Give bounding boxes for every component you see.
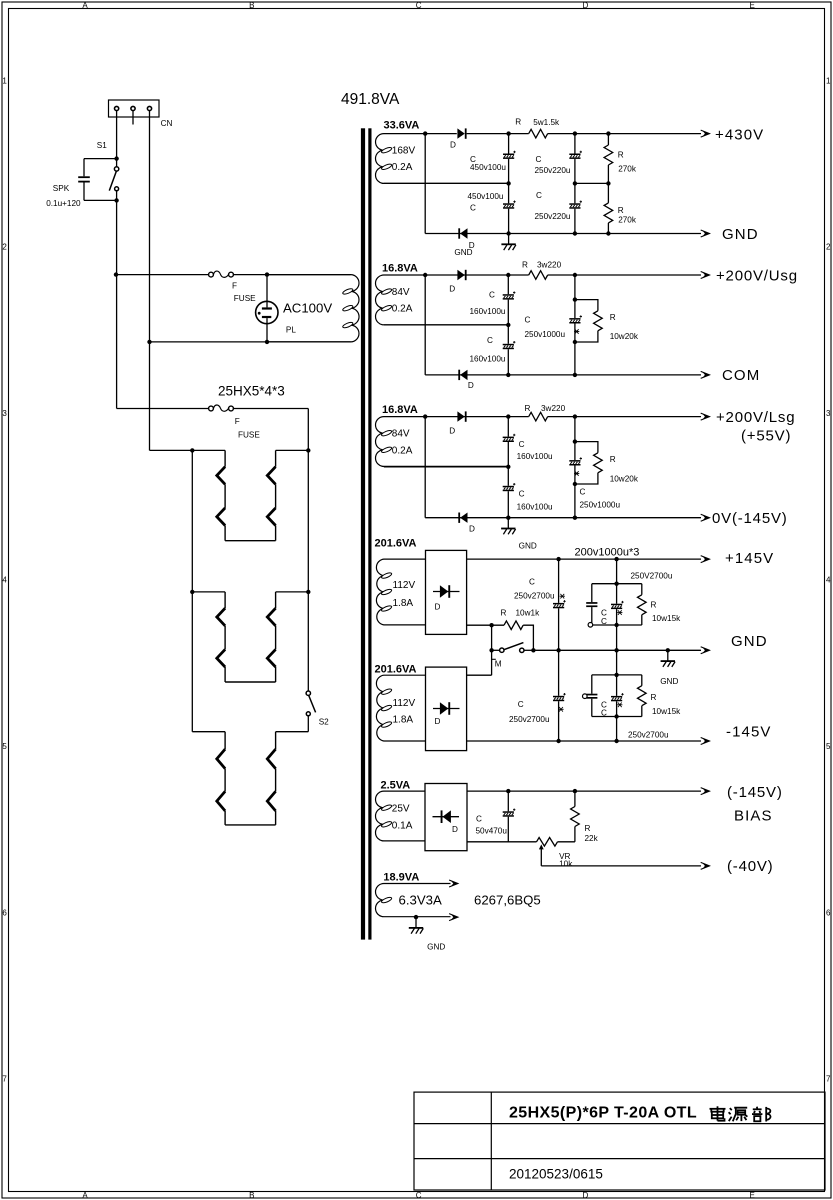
svg-text:7: 7 bbox=[2, 1075, 7, 1084]
secondary winding 201.6VA 112V 1.8A (1) bbox=[376, 559, 425, 625]
svg-text:270k: 270k bbox=[618, 165, 637, 174]
svg-text:C: C bbox=[519, 440, 525, 449]
junction bbox=[573, 273, 577, 277]
wire filter column sec2 bbox=[574, 275, 576, 375]
capacitor C 160v100u (lower sec3) bbox=[503, 483, 516, 491]
capacitor C 160v100u (upper sec3) bbox=[503, 434, 516, 442]
svg-text:25HX5(P)*6P T-20A OTL: 25HX5(P)*6P T-20A OTL bbox=[509, 1105, 697, 1122]
resistor R 3w220 (sec2) bbox=[529, 271, 548, 280]
wire AC top to primary bbox=[267, 274, 351, 276]
resistor R 270k (upper) bbox=[604, 145, 613, 165]
wire GND row sec4 bbox=[533, 649, 701, 651]
junction bbox=[573, 414, 577, 418]
junction row1 left rail bbox=[190, 448, 194, 452]
svg-text:CN: CN bbox=[161, 119, 173, 128]
junction switch M left bbox=[489, 648, 493, 652]
svg-text:R: R bbox=[610, 313, 616, 322]
svg-text:112V: 112V bbox=[393, 580, 416, 591]
wire CN pin3 to heater row bbox=[149, 342, 151, 451]
svg-text:A: A bbox=[82, 1191, 88, 1200]
wire heater g2A lead3 bbox=[224, 667, 226, 682]
wire column A bbox=[558, 559, 560, 741]
svg-text:A: A bbox=[82, 1, 88, 10]
svg-text:270k: 270k bbox=[618, 216, 637, 225]
svg-text:1.8A: 1.8A bbox=[393, 598, 414, 609]
wire SPK top bbox=[84, 158, 117, 160]
svg-text:C: C bbox=[489, 291, 495, 300]
wire cap column sec1 bbox=[508, 134, 510, 234]
capacitor C (group1 electrolytic) bbox=[611, 601, 624, 609]
wire filter column sec3 bbox=[574, 417, 576, 518]
svg-text:D: D bbox=[449, 427, 455, 436]
svg-text:R: R bbox=[651, 601, 657, 610]
heater resistor group3 B1 bbox=[267, 749, 275, 769]
potentiometer VR 10k track bbox=[537, 838, 558, 847]
svg-text:250v2700u: 250v2700u bbox=[509, 715, 550, 724]
svg-text:SPK: SPK bbox=[53, 184, 70, 193]
svg-text:10w15k: 10w15k bbox=[652, 614, 681, 623]
svg-text:R: R bbox=[525, 404, 531, 413]
capacitor C 160v100u (lower sec2) bbox=[503, 341, 516, 349]
arrow -145V bbox=[701, 738, 710, 745]
junction AC bottom left bbox=[147, 340, 151, 344]
svg-text:C: C bbox=[470, 204, 476, 213]
wire COM row bbox=[425, 374, 701, 376]
junction col425 top sec3 bbox=[423, 414, 427, 418]
capacitor C 250v2700u (A upper) bbox=[553, 600, 566, 608]
wire heater g1B lead1 bbox=[275, 450, 277, 466]
svg-text:160v100u: 160v100u bbox=[517, 503, 553, 512]
terminal circle group1 bbox=[588, 623, 593, 628]
svg-text:D: D bbox=[452, 825, 458, 834]
junction bbox=[573, 373, 577, 377]
svg-text:25HX5*4*3: 25HX5*4*3 bbox=[218, 384, 285, 399]
wire (-145V) bias row bbox=[467, 790, 701, 792]
resistor R 10w20k (sec3) bbox=[594, 453, 603, 473]
diode D top (sec2) bbox=[457, 270, 466, 280]
svg-text:201.6VA: 201.6VA bbox=[375, 664, 417, 676]
junction bbox=[506, 516, 510, 520]
svg-text:250V2700u: 250V2700u bbox=[631, 571, 673, 580]
svg-text:E: E bbox=[750, 1, 755, 10]
wire S1 top lead bbox=[116, 159, 118, 167]
svg-text:7: 7 bbox=[826, 1075, 831, 1084]
junction bbox=[556, 739, 560, 743]
svg-text:6.3V3A: 6.3V3A bbox=[399, 893, 442, 908]
svg-text:C: C bbox=[416, 1, 422, 10]
secondary winding 16.8VA 84V 0.2A bbox=[376, 275, 509, 325]
svg-text:160v100u: 160v100u bbox=[517, 452, 553, 461]
svg-text:450v100u: 450v100u bbox=[470, 163, 506, 172]
wire row2 left seg bbox=[192, 591, 225, 593]
bridge rectifier D (1) bbox=[426, 550, 467, 634]
arrow (-40V) bbox=[701, 862, 710, 869]
junction group1 bottom bbox=[614, 623, 618, 627]
wire +200V/Lsg row (right) bbox=[548, 416, 701, 418]
secondary winding 16.8VA 84V 0.2A (2) bbox=[376, 417, 509, 467]
arrow +145V bbox=[701, 556, 710, 563]
wire AC line top (right) bbox=[233, 274, 267, 276]
capacitor C (group2 electrolytic) bbox=[611, 693, 624, 701]
heater resistor group1 B2 bbox=[267, 508, 275, 526]
ground (heater) bbox=[409, 917, 424, 934]
arrow (-145V) bbox=[701, 788, 710, 795]
arrow heater bottom bbox=[449, 914, 458, 921]
svg-text:5w1.5k: 5w1.5k bbox=[533, 118, 560, 127]
wire -145V row bbox=[467, 740, 701, 742]
wire cap column sec3 bbox=[507, 417, 509, 518]
wire +145V row bbox=[467, 558, 701, 560]
heater resistor group3 B2 bbox=[267, 791, 275, 811]
svg-text:2: 2 bbox=[826, 243, 831, 252]
heater resistor group1 A2 bbox=[217, 508, 225, 526]
wire left rail bbox=[191, 450, 193, 731]
junction mid sec3 bbox=[506, 465, 510, 469]
svg-text:FUSE: FUSE bbox=[238, 431, 260, 440]
wire row2 right seg bbox=[276, 591, 309, 593]
wire heater group2 bottom bbox=[225, 681, 276, 683]
wire filter column sec1 bbox=[574, 134, 576, 234]
wire SPK cap top lead bbox=[83, 159, 85, 177]
resistor R 10w20k (sec2) bbox=[594, 311, 603, 331]
svg-text:0.2A: 0.2A bbox=[392, 162, 413, 173]
wire R 10w1k branch bbox=[492, 625, 534, 650]
diode inside bridge 1 bbox=[440, 585, 450, 598]
junction switch M out bbox=[531, 648, 535, 652]
svg-text:5: 5 bbox=[826, 742, 831, 751]
wire heater g1B lead2 bbox=[275, 484, 277, 508]
svg-text:84V: 84V bbox=[392, 287, 410, 298]
svg-text:GND: GND bbox=[660, 677, 678, 686]
diode D bottom (sec1) bbox=[458, 228, 467, 238]
capacitor C 250v220u (upper) bbox=[569, 151, 582, 159]
svg-text:10w20k: 10w20k bbox=[610, 475, 639, 484]
wire col425 sec2 bbox=[424, 275, 426, 375]
wire +200V/Lsg row (left) bbox=[425, 416, 529, 418]
svg-text:GND: GND bbox=[722, 226, 759, 243]
svg-text:E: E bbox=[750, 1191, 755, 1200]
wire top row w-d bbox=[425, 133, 457, 135]
svg-text:6: 6 bbox=[826, 908, 831, 917]
junction bbox=[556, 648, 560, 652]
capacitor C 160v100u (upper sec2) bbox=[503, 291, 516, 299]
resistor R 10w15k (group1) bbox=[638, 595, 647, 615]
fuse F (AC) bbox=[209, 271, 234, 277]
junction R loop bottom sec3 bbox=[573, 482, 577, 486]
svg-text:33.6VA: 33.6VA bbox=[384, 120, 420, 132]
wire +200V/Usg row (left) bbox=[425, 274, 529, 276]
mark * (sec2 cap) bbox=[574, 329, 579, 334]
capacitor C (group1 film) bbox=[586, 602, 597, 607]
svg-text:-145V: -145V bbox=[726, 724, 772, 741]
svg-text:R: R bbox=[651, 693, 657, 702]
svg-text:250v2700u: 250v2700u bbox=[514, 591, 555, 600]
junction S1 bottom bbox=[114, 198, 118, 202]
svg-text:C: C bbox=[601, 617, 607, 626]
ground (sec3) bbox=[501, 518, 515, 535]
svg-text:160v100u: 160v100u bbox=[470, 355, 506, 364]
junction bbox=[506, 789, 510, 793]
junction col425 top bbox=[423, 131, 427, 135]
svg-text:R: R bbox=[585, 824, 591, 833]
svg-text:1: 1 bbox=[2, 76, 7, 85]
wire +200V/Usg row (right) bbox=[548, 274, 701, 276]
svg-text:3w220: 3w220 bbox=[541, 404, 566, 413]
wire left rail down bbox=[116, 275, 118, 409]
svg-text:112V: 112V bbox=[393, 698, 416, 709]
wire CN pin1 down bbox=[116, 111, 118, 159]
svg-text:201.6VA: 201.6VA bbox=[375, 538, 417, 550]
svg-text:B: B bbox=[249, 1, 254, 10]
junction R loop top bbox=[573, 297, 577, 301]
junction gnd tee bbox=[666, 648, 670, 652]
svg-text:16.8VA: 16.8VA bbox=[382, 263, 418, 275]
junction bbox=[506, 414, 510, 418]
diode inside bias bridge bbox=[441, 810, 451, 823]
wire bias cap column bbox=[507, 791, 509, 842]
junction bbox=[614, 648, 618, 652]
svg-text:+145V: +145V bbox=[725, 550, 774, 567]
svg-text:R: R bbox=[618, 206, 624, 215]
junction bbox=[506, 373, 510, 377]
junction bbox=[506, 131, 510, 135]
wire switch M left stub bbox=[492, 649, 500, 651]
bridge rectifier D (2) bbox=[426, 667, 467, 751]
wire heater g3A lead2 bbox=[224, 769, 226, 792]
svg-text:3: 3 bbox=[826, 409, 831, 418]
arrow COM bbox=[701, 371, 710, 378]
svg-text:C: C bbox=[416, 1191, 422, 1200]
wire group2 loop bbox=[592, 675, 642, 717]
svg-text:C: C bbox=[601, 708, 607, 717]
terminal circle group2 bbox=[583, 694, 588, 699]
secondary winding 33.6VA 168V 0.2A bbox=[376, 134, 509, 184]
svg-text:C: C bbox=[536, 191, 542, 200]
wire sec1 mid row bbox=[384, 182, 509, 184]
heater resistor group2 B2 bbox=[267, 649, 275, 667]
svg-text:D: D bbox=[435, 603, 441, 612]
svg-text:0.2A: 0.2A bbox=[392, 445, 413, 456]
resistor R 10w1k bbox=[504, 621, 523, 630]
resistor R 5w1.5k bbox=[529, 129, 548, 138]
svg-text:C: C bbox=[476, 815, 482, 824]
capacitor C 250v220u (lower) bbox=[569, 201, 582, 209]
capacitor C 250v2700u (A lower) bbox=[553, 693, 566, 701]
junction bbox=[573, 131, 577, 135]
svg-text:D: D bbox=[469, 525, 475, 534]
svg-text:C: C bbox=[580, 487, 586, 496]
resistor R 270k (lower) bbox=[604, 203, 613, 223]
mark * (group2) bbox=[617, 703, 622, 708]
svg-text:250v2700u: 250v2700u bbox=[628, 730, 669, 739]
ground (sec1) bbox=[501, 234, 516, 251]
wire heater g2A lead1 bbox=[224, 592, 226, 608]
secondary winding 2.5VA 25V 0.1A bbox=[375, 791, 425, 841]
svg-text:COM: COM bbox=[722, 367, 760, 384]
junction PL bottom bbox=[265, 340, 269, 344]
heater resistor group3 A2 bbox=[217, 791, 225, 811]
resistor R 3w220 (sec3) bbox=[529, 412, 548, 421]
junction R loop top sec3 bbox=[573, 439, 577, 443]
svg-text:S2: S2 bbox=[319, 718, 329, 727]
svg-text:D: D bbox=[583, 1191, 589, 1200]
junction bbox=[506, 231, 510, 235]
wire heater group1 bottom bbox=[225, 540, 276, 542]
wire switch column bbox=[491, 625, 493, 675]
wire heater g1B lead3 bbox=[275, 526, 277, 541]
wire heater g1A lead1 bbox=[224, 450, 226, 466]
arrow +430V bbox=[701, 130, 710, 137]
wire S1 bottom lead bbox=[116, 191, 118, 201]
svg-text:R: R bbox=[522, 261, 528, 270]
svg-text:(+55V): (+55V) bbox=[741, 428, 791, 445]
arrow +200V/Lsg bbox=[701, 413, 710, 420]
junction bbox=[556, 557, 560, 561]
junction group1 top bbox=[614, 582, 618, 586]
junction bbox=[573, 789, 577, 793]
wire fuse row down bbox=[307, 409, 309, 451]
junction bbox=[614, 557, 618, 561]
svg-text:GND: GND bbox=[454, 248, 472, 257]
svg-text:D: D bbox=[450, 141, 456, 150]
svg-text:3: 3 bbox=[2, 409, 7, 418]
svg-text:0.1A: 0.1A bbox=[392, 820, 413, 831]
wire SPK cap bottom lead bbox=[83, 183, 85, 201]
svg-text:10k: 10k bbox=[559, 859, 573, 868]
resistor R 10w15k (group2) bbox=[638, 686, 647, 706]
svg-text:B: B bbox=[249, 1191, 254, 1200]
junction group2 bottom bbox=[614, 714, 618, 718]
heater resistor group2 A2 bbox=[217, 649, 225, 667]
svg-text:R: R bbox=[618, 151, 624, 160]
resistor R 22k bbox=[571, 807, 580, 827]
svg-text:D: D bbox=[449, 285, 455, 294]
capacitor C 450v100u (upper) bbox=[503, 151, 516, 159]
svg-text:491.8VA: 491.8VA bbox=[341, 91, 400, 108]
secondary winding 201.6VA 112V 1.8A (2) bbox=[376, 675, 425, 741]
wire right rail lower bbox=[307, 716, 309, 732]
wire bridge1 out- bbox=[467, 624, 492, 626]
svg-text:0.2A: 0.2A bbox=[392, 304, 413, 315]
wire R loop sec3 bbox=[575, 442, 598, 484]
wire CN pin3 down bbox=[149, 111, 151, 342]
wire SPK bottom bbox=[84, 199, 117, 201]
junction row2 left rail bbox=[190, 590, 194, 594]
arrow 0V(-145V) bbox=[701, 514, 710, 521]
svg-text:10w1k: 10w1k bbox=[516, 609, 541, 618]
svg-text:C: C bbox=[519, 490, 525, 499]
transformer core bbox=[361, 128, 372, 939]
bridge rectifier D (bias) bbox=[425, 784, 467, 851]
svg-text:0V(-145V): 0V(-145V) bbox=[712, 510, 788, 527]
wire bleeder column seg2 bbox=[607, 165, 609, 203]
wire R loop sec2 bbox=[575, 300, 598, 342]
junction bbox=[573, 516, 577, 520]
svg-text:1: 1 bbox=[826, 76, 831, 85]
svg-text:250v1000u: 250v1000u bbox=[580, 501, 621, 510]
wire heater g2A lead2 bbox=[224, 626, 226, 650]
svg-text:450v100u: 450v100u bbox=[468, 192, 504, 201]
mark * (group1) bbox=[617, 610, 622, 615]
capacitor C 250v1000u (sec2) bbox=[569, 315, 582, 323]
svg-text:R: R bbox=[610, 455, 616, 464]
fuse F (heater) bbox=[209, 405, 234, 411]
junction AC top left bbox=[114, 272, 118, 276]
svg-text:AC100V: AC100V bbox=[283, 301, 332, 316]
svg-text:GND: GND bbox=[519, 541, 537, 550]
svg-text:22k: 22k bbox=[585, 834, 599, 843]
wire heater g2B lead3 bbox=[275, 667, 277, 682]
junction heater CT bbox=[414, 915, 418, 919]
wire heater g3A lead3 bbox=[224, 811, 226, 825]
heater resistor group1 B1 bbox=[267, 467, 275, 485]
junction R loop bottom bbox=[573, 340, 577, 344]
title kanji 電源部 bbox=[710, 1106, 771, 1121]
junction bbox=[606, 231, 610, 235]
wire R22k column seg2 bbox=[574, 827, 576, 842]
wire AC line bottom bbox=[150, 341, 351, 343]
wire heater g3B lead2 bbox=[275, 769, 277, 792]
capacitor C 450v100u (lower) bbox=[503, 201, 516, 209]
mark * (A lower) bbox=[558, 707, 563, 712]
svg-text:10w15k: 10w15k bbox=[652, 707, 681, 716]
wire row3 right bbox=[276, 731, 309, 733]
heater resistor group2 B1 bbox=[267, 608, 275, 626]
wire heater group3 bottom bbox=[225, 824, 276, 826]
svg-text:FUSE: FUSE bbox=[234, 294, 256, 303]
switch M bbox=[500, 643, 524, 653]
tick mark M bbox=[492, 658, 496, 660]
wire heater row1 left bbox=[150, 449, 226, 451]
heater resistor group3 A1 bbox=[217, 749, 225, 769]
wire bias bottom right bbox=[558, 841, 575, 843]
wire bleeder column seg3 bbox=[607, 223, 609, 234]
svg-text:(-40V): (-40V) bbox=[727, 858, 773, 875]
junction bbox=[606, 181, 610, 185]
wire heater g3B lead1 bbox=[275, 732, 277, 749]
junction group2 top bbox=[614, 673, 618, 677]
junction mid sec2 bbox=[506, 323, 510, 327]
junction col425 top bbox=[423, 273, 427, 277]
svg-text:50v470u: 50v470u bbox=[476, 826, 508, 835]
svg-text:6: 6 bbox=[2, 908, 7, 917]
wire (-40V) row bbox=[541, 865, 701, 867]
junction row2 right rail bbox=[306, 590, 310, 594]
wire S1 to AC line bbox=[116, 200, 118, 274]
wire col425 bbox=[424, 134, 426, 234]
svg-text:F: F bbox=[235, 417, 240, 426]
wire heater fuse row (left) bbox=[117, 408, 209, 410]
svg-text:GND: GND bbox=[731, 633, 768, 650]
svg-text:C: C bbox=[487, 336, 493, 345]
junction PL top bbox=[265, 272, 269, 276]
svg-text:3w220: 3w220 bbox=[537, 261, 562, 270]
VR wiper arrow bbox=[539, 844, 544, 866]
svg-text:6267,6BQ5: 6267,6BQ5 bbox=[474, 893, 541, 908]
svg-text:84V: 84V bbox=[392, 429, 410, 440]
svg-text:PL: PL bbox=[286, 325, 296, 334]
wire heater g3B lead3 bbox=[275, 811, 277, 825]
svg-text:C: C bbox=[536, 155, 542, 164]
svg-text:200v1000u*3: 200v1000u*3 bbox=[575, 547, 640, 559]
svg-text:250v220u: 250v220u bbox=[535, 166, 571, 175]
wire cap column sec2 bbox=[507, 275, 509, 375]
svg-text:C: C bbox=[525, 315, 531, 324]
wire heater g3A lead1 bbox=[224, 732, 226, 749]
junction bbox=[573, 231, 577, 235]
wire 0V row bbox=[425, 517, 701, 519]
wire heater row1 right bbox=[276, 449, 309, 451]
